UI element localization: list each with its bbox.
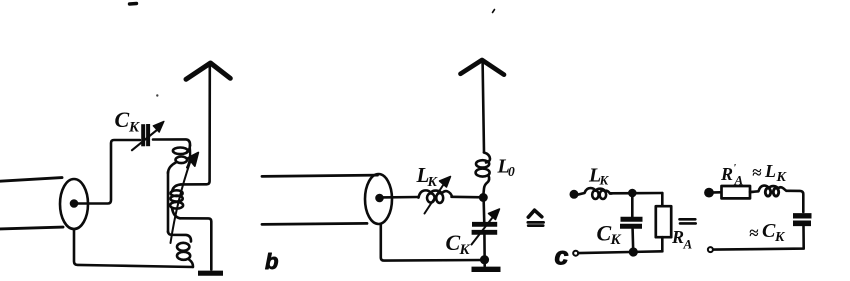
svg-text:A: A [683, 237, 693, 252]
antenna A2 lead (circuit b) [483, 62, 484, 152]
wire: CK to ground with bottom return (circuit b) [483, 232, 486, 266]
antenna A2 symbol (circuit b) [461, 60, 505, 75]
svg-text:K: K [128, 120, 140, 136]
resistor RA (equivalent circuit 1): body [656, 206, 671, 237]
label approx CK (equivalent circuit 2) [749, 220, 786, 245]
coax cable W2 (circuit b): lower line [262, 223, 367, 224]
equals sign between equivalent circuits [680, 219, 696, 223]
svg-text:K: K [459, 242, 471, 258]
wire: dot to RA' (equivalent circuit 2) [709, 191, 720, 194]
coax cable W1 (circuit a): center conductor dot [71, 201, 77, 207]
capacitor approx CK (equivalent circuit 2): top plate [793, 213, 812, 218]
svg-text:K: K [610, 232, 622, 248]
antenna A1 symbol (circuit a) [186, 63, 230, 79]
coax cable W1 (circuit a): lower line [0, 227, 63, 229]
wire: secondary to ground (circuit a) [180, 218, 211, 269]
wire: capacitor to bottom rail (equivalent circuit 2) [713, 226, 804, 250]
wire: left link between primary coils (circuit a) [167, 172, 170, 232]
transformer variable-coupling arrow (circuit a) [171, 153, 199, 244]
inductor LK (circuit b) [419, 190, 453, 203]
coax cable W2 (circuit b): center conductor dot [377, 195, 383, 201]
capacitor approx CK (equivalent circuit 2): bottom plate [793, 221, 811, 227]
resistor RA (equivalent circuit 1): top lead [661, 193, 664, 207]
wire: node to CK (circuit b) [482, 198, 485, 225]
capacitor CK (equivalent circuit 1): top plate [621, 217, 643, 222]
wire: dot to LK (circuit b) [380, 196, 419, 199]
label approx LK (equivalent circuit 2) [752, 161, 788, 185]
svg-text:C: C [115, 107, 130, 132]
label RA (equivalent circuit 1) [671, 227, 693, 252]
wire: bottom rail (equivalent circuit 1) [579, 251, 663, 253]
wire: CK branch lower (equivalent circuit 1) [631, 229, 634, 251]
speck artifact top-left [130, 2, 137, 6]
wire: CK branch upper (equivalent circuit 1) [631, 193, 634, 217]
svg-text:c: c [555, 242, 569, 270]
terminal open circle bottom (equivalent circuit 1) [573, 251, 578, 256]
wire: sheath bottom return (circuit b) [381, 224, 485, 261]
svg-text:K: K [774, 230, 786, 245]
label L0 (circuit b) [497, 156, 516, 180]
inductor L0 (circuit b) [476, 153, 490, 195]
terminal dot top (equivalent circuit 2) [705, 189, 712, 196]
resistor RA' (equivalent circuit 2): body [722, 186, 751, 198]
svg-text:R: R [671, 227, 684, 247]
resistor RA (equivalent circuit 1): bottom lead [661, 237, 664, 251]
junction dot top (equivalent circuit 1) [629, 190, 635, 196]
wire: coil to right corner (equivalent circuit 2) [789, 191, 803, 212]
capacitor CK variable arrow (circuit b) [472, 209, 500, 245]
coax cable W1 (circuit a): sheath ellipse [60, 179, 88, 229]
wire: RA' to coil (equivalent circuit 2) [750, 191, 754, 194]
coax cable W2 (circuit b): upper line [262, 175, 378, 176]
svg-text:≈: ≈ [749, 224, 759, 243]
label c (equivalent circuit 1) [555, 242, 569, 270]
svg-text:≈: ≈ [752, 163, 762, 182]
wire: dot to riser (circuit a) [74, 140, 140, 204]
capacitor CK (equivalent circuit 1): bottom plate [620, 224, 642, 229]
node junction dot (circuit b) [480, 194, 486, 200]
wire: coil to RA corner (equivalent circuit 1) [611, 192, 663, 195]
capacitor CK (circuit a): right plate [146, 124, 150, 146]
terminal open circle bottom (equivalent circuit 2) [708, 247, 713, 252]
label CK (equivalent circuit 1) [597, 221, 622, 249]
transformer secondary coil (circuit a) [170, 184, 183, 218]
svg-text:L: L [764, 161, 776, 181]
wire: capacitor to primary top coil (circuit a) [153, 139, 190, 145]
transformer primary lower coil (circuit a) [168, 232, 193, 267]
ground GND1 (circuit a) [198, 271, 223, 276]
svg-text:b: b [265, 249, 278, 274]
svg-text:0: 0 [508, 164, 515, 179]
label CK (circuit b) [446, 230, 471, 258]
label RA' (equivalent circuit 2) [720, 162, 744, 188]
label LK (circuit b) [416, 163, 439, 190]
svg-text:C: C [597, 221, 612, 246]
svg-text:A: A [734, 173, 744, 188]
terminal dot top (equivalent circuit 1) [571, 191, 577, 197]
coax cable W1 (circuit a): upper line [0, 178, 62, 182]
wire: sheath to primary bottom (circuit a) [74, 229, 193, 267]
inductor approx LK (equivalent circuit 2) [751, 186, 790, 197]
transformer primary upper coil (circuit a) [168, 146, 190, 174]
capacitor CK (circuit b): bottom plate [472, 230, 498, 235]
svg-text:K: K [776, 170, 788, 185]
antenna A1 lead (circuit a) [181, 66, 210, 184]
svg-text:R: R [720, 164, 733, 184]
equivalence symbol (corresponds-to) [528, 210, 544, 225]
capacitor CK (circuit b): top plate [472, 222, 497, 227]
capacitor CK (circuit a): left plate [141, 124, 145, 146]
ground GND2 (circuit b) [472, 267, 501, 272]
speck artifact top-middle [493, 10, 495, 13]
wire: LK to node (circuit b) [452, 196, 484, 199]
inductor LK variable arrow (circuit b) [425, 177, 451, 214]
junction dot bottom (equivalent circuit 1) [630, 249, 637, 256]
inductor LK (equivalent circuit 1) [578, 188, 613, 199]
label LK (equivalent circuit 1) [588, 165, 610, 188]
svg-text:K: K [599, 173, 610, 188]
coax cable W2 (circuit b): sheath ellipse [365, 174, 392, 224]
speck artifact near antenna a [156, 94, 158, 96]
svg-text:C: C [762, 220, 776, 242]
capacitor CK (circuit a): variable arrow [132, 121, 164, 150]
bottom junction dot (circuit b) [481, 256, 488, 263]
svg-text:K: K [427, 175, 439, 190]
svg-text:C: C [446, 230, 461, 255]
label CK (circuit a) [115, 107, 141, 136]
label b (circuit b) [265, 249, 278, 274]
